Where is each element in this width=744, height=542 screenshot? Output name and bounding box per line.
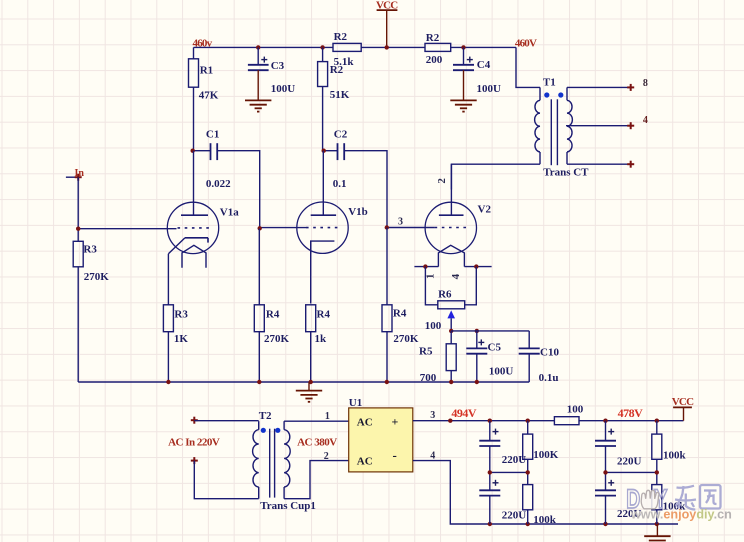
svg-text:1k: 1k	[315, 333, 328, 345]
svg-text:VCC: VCC	[376, 0, 398, 12]
capacitor C3	[248, 47, 295, 95]
svg-text:100k: 100k	[663, 450, 687, 462]
tube V1a	[167, 151, 239, 268]
node ground rail junctions	[166, 380, 479, 384]
node R6 wiper net	[449, 329, 479, 333]
transformer T1	[535, 77, 590, 179]
ground (rail)	[296, 382, 322, 402]
ground (C3)	[245, 70, 271, 111]
svg-text:VCC: VCC	[672, 396, 694, 408]
svg-text:478V: 478V	[618, 406, 644, 420]
tube V1b	[297, 151, 368, 254]
svg-text:R1: R1	[200, 65, 213, 77]
capacitor C4	[453, 47, 501, 95]
resistor R5	[419, 331, 456, 384]
svg-text:0.1u: 0.1u	[539, 372, 559, 384]
wire T1 to V2 plate	[451, 164, 540, 189]
pin 2 (V2 plate)	[436, 178, 448, 184]
svg-text:0.1: 0.1	[333, 178, 347, 190]
resistor 100k c	[652, 421, 687, 473]
wire C2 to V2 grid	[344, 151, 387, 228]
resistor 100k d	[652, 472, 686, 524]
wire V1a cathode	[167, 254, 169, 305]
ground (PSU)	[644, 524, 670, 541]
svg-text:C4: C4	[477, 59, 491, 71]
svg-text:U1: U1	[349, 397, 362, 409]
svg-text:51K: 51K	[330, 89, 350, 101]
svg-text:-: -	[393, 448, 397, 463]
svg-text:C1: C1	[206, 128, 219, 140]
pin 3 (V2 grid)	[398, 217, 403, 228]
node mid left	[488, 470, 530, 474]
capacitor 220U d	[595, 472, 642, 524]
resistor R3 1K	[163, 305, 188, 382]
wire mid left pair	[490, 471, 528, 473]
pin 4 (V2)	[450, 273, 462, 279]
svg-text:0.022: 0.022	[206, 178, 231, 190]
svg-text:R4: R4	[266, 308, 280, 320]
net label AC 380V	[297, 437, 337, 449]
svg-text:100: 100	[567, 403, 584, 415]
wire V1a grid	[78, 228, 176, 230]
svg-text:3: 3	[398, 217, 403, 228]
svg-text:AC In 220V: AC In 220V	[168, 437, 220, 449]
transformer T2	[253, 410, 316, 512]
ground (C4)	[450, 70, 476, 111]
svg-text:R4: R4	[393, 308, 407, 320]
resistor 100K	[523, 421, 559, 473]
svg-text:Trans Cup1: Trans Cup1	[260, 500, 316, 512]
svg-text:V2: V2	[478, 204, 492, 216]
capacitor 220U c	[595, 421, 642, 473]
resistor R2 200	[425, 32, 451, 66]
net label 478V	[618, 406, 644, 420]
potentiometer R6	[425, 289, 465, 333]
wire top rail	[194, 47, 541, 87]
resistor 100 filter	[554, 403, 583, 424]
pin 4	[643, 115, 648, 126]
svg-text:R3: R3	[174, 308, 188, 320]
wire C1 to V1b grid	[217, 151, 260, 229]
connector T1 outputs	[627, 84, 634, 168]
svg-text:4: 4	[643, 115, 648, 126]
resistor R2 5.1k	[333, 31, 361, 68]
svg-text:1: 1	[425, 273, 437, 279]
svg-text:T2: T2	[259, 410, 272, 422]
svg-text:100U: 100U	[489, 366, 514, 378]
svg-text:220U: 220U	[617, 455, 642, 467]
svg-text:C3: C3	[271, 60, 285, 72]
resistor R4 270K right	[382, 228, 419, 383]
wire In down	[77, 177, 79, 241]
svg-text:100U: 100U	[271, 83, 296, 95]
svg-text:100U: 100U	[477, 83, 502, 95]
svg-text:R6: R6	[438, 289, 452, 301]
svg-text:R5: R5	[419, 345, 433, 357]
wire T1 secondary taps	[566, 87, 630, 164]
pin 2 (U1)	[324, 451, 329, 462]
svg-text:1: 1	[325, 411, 330, 422]
wire bottom rail	[413, 461, 678, 524]
svg-text:270K: 270K	[84, 271, 110, 283]
svg-text:100K: 100K	[533, 449, 559, 461]
wire T2 pin2	[284, 461, 349, 499]
node top-rail junctions	[256, 45, 466, 49]
pin 4 (U1)	[430, 450, 435, 461]
svg-text:V1a: V1a	[220, 207, 239, 219]
wire AC input bottom	[194, 461, 258, 499]
node V1b grid junction	[258, 226, 262, 230]
svg-text:3: 3	[430, 410, 435, 421]
svg-text:1K: 1K	[174, 333, 189, 345]
svg-text:270K: 270K	[264, 333, 290, 345]
svg-text:2: 2	[436, 178, 448, 184]
pin 3 (U1)	[430, 410, 435, 421]
svg-text:AC: AC	[357, 416, 373, 428]
tube V2	[425, 164, 491, 266]
svg-text:100: 100	[425, 320, 442, 332]
svg-text:2: 2	[324, 451, 329, 462]
svg-text:www.enjoydiy.cn: www.enjoydiy.cn	[630, 507, 732, 521]
net label 460V	[515, 38, 537, 50]
svg-text:R3: R3	[83, 244, 97, 256]
resistor 100k b	[523, 472, 557, 526]
svg-text:4: 4	[450, 273, 462, 279]
wire node100	[451, 330, 529, 332]
node mid right	[603, 470, 659, 474]
node C1 junction	[191, 149, 195, 153]
node V2 grid junction	[385, 225, 389, 229]
svg-text:220U: 220U	[502, 509, 527, 521]
svg-text:R4: R4	[317, 308, 331, 320]
svg-text:In: In	[75, 168, 85, 179]
svg-text:100k: 100k	[533, 514, 557, 526]
wire V2 grid	[387, 227, 435, 229]
wire V2 filament stubs	[414, 266, 491, 268]
wire V1b cathode	[310, 241, 312, 303]
svg-text:T1: T1	[543, 77, 556, 89]
wire filament to R6	[425, 267, 476, 305]
wire B+ rail	[413, 420, 684, 422]
svg-text:+: +	[392, 414, 399, 428]
wire ground rail	[78, 381, 529, 383]
svg-text:AC 380V: AC 380V	[297, 437, 337, 449]
power VCC right	[672, 396, 694, 421]
svg-text:V1b: V1b	[348, 206, 368, 218]
net label 460v	[193, 37, 213, 49]
pin 8	[643, 78, 648, 89]
svg-text:AC: AC	[357, 455, 373, 467]
net label 494V	[451, 406, 477, 420]
svg-text:R2: R2	[426, 32, 440, 44]
resistor R4 1k	[306, 305, 331, 382]
svg-text:R2: R2	[334, 31, 348, 43]
svg-text:4: 4	[430, 450, 435, 461]
resistor R2 51K	[318, 47, 350, 150]
svg-text:270K: 270K	[393, 333, 419, 345]
svg-text:460V: 460V	[515, 38, 537, 50]
svg-text:5.1k: 5.1k	[334, 56, 355, 68]
pin 1 (V2)	[425, 273, 437, 279]
capacitor C10	[519, 331, 560, 384]
wire V1b grid	[260, 227, 306, 229]
watermark enjoydiy logo	[626, 484, 731, 521]
svg-text:200: 200	[426, 54, 443, 66]
capacitor 220U b	[479, 472, 526, 524]
svg-text:494V: 494V	[451, 406, 477, 420]
capacitor C2	[325, 128, 348, 190]
node C2 junction	[322, 149, 326, 153]
resistor R1	[189, 47, 219, 150]
svg-text:C10: C10	[540, 347, 559, 359]
capacitor C1	[195, 128, 232, 190]
node B+ junctions	[448, 419, 659, 423]
svg-text:C2: C2	[334, 128, 348, 140]
capacitor C5	[466, 331, 513, 382]
resistor R4 270K	[254, 229, 289, 382]
node In junction	[76, 227, 80, 231]
node bottom-rail junctions	[488, 522, 659, 526]
svg-text:C5: C5	[488, 341, 502, 353]
wire T2 pin1	[284, 420, 349, 422]
capacitor 220U a	[479, 421, 526, 473]
resistor R3 270K	[73, 241, 109, 382]
svg-text:47K: 47K	[199, 90, 219, 102]
connector In	[66, 168, 84, 181]
wire AC input top	[194, 420, 258, 422]
svg-text:8: 8	[643, 78, 648, 89]
wire mid right pair	[606, 471, 657, 473]
power VCC top	[376, 0, 398, 47]
pin 1 (U1)	[325, 411, 330, 422]
rectifier U1	[349, 397, 413, 472]
node V2 filament pins	[423, 264, 478, 268]
connector AC input	[168, 417, 220, 464]
svg-text:Trans CT: Trans CT	[543, 166, 589, 178]
